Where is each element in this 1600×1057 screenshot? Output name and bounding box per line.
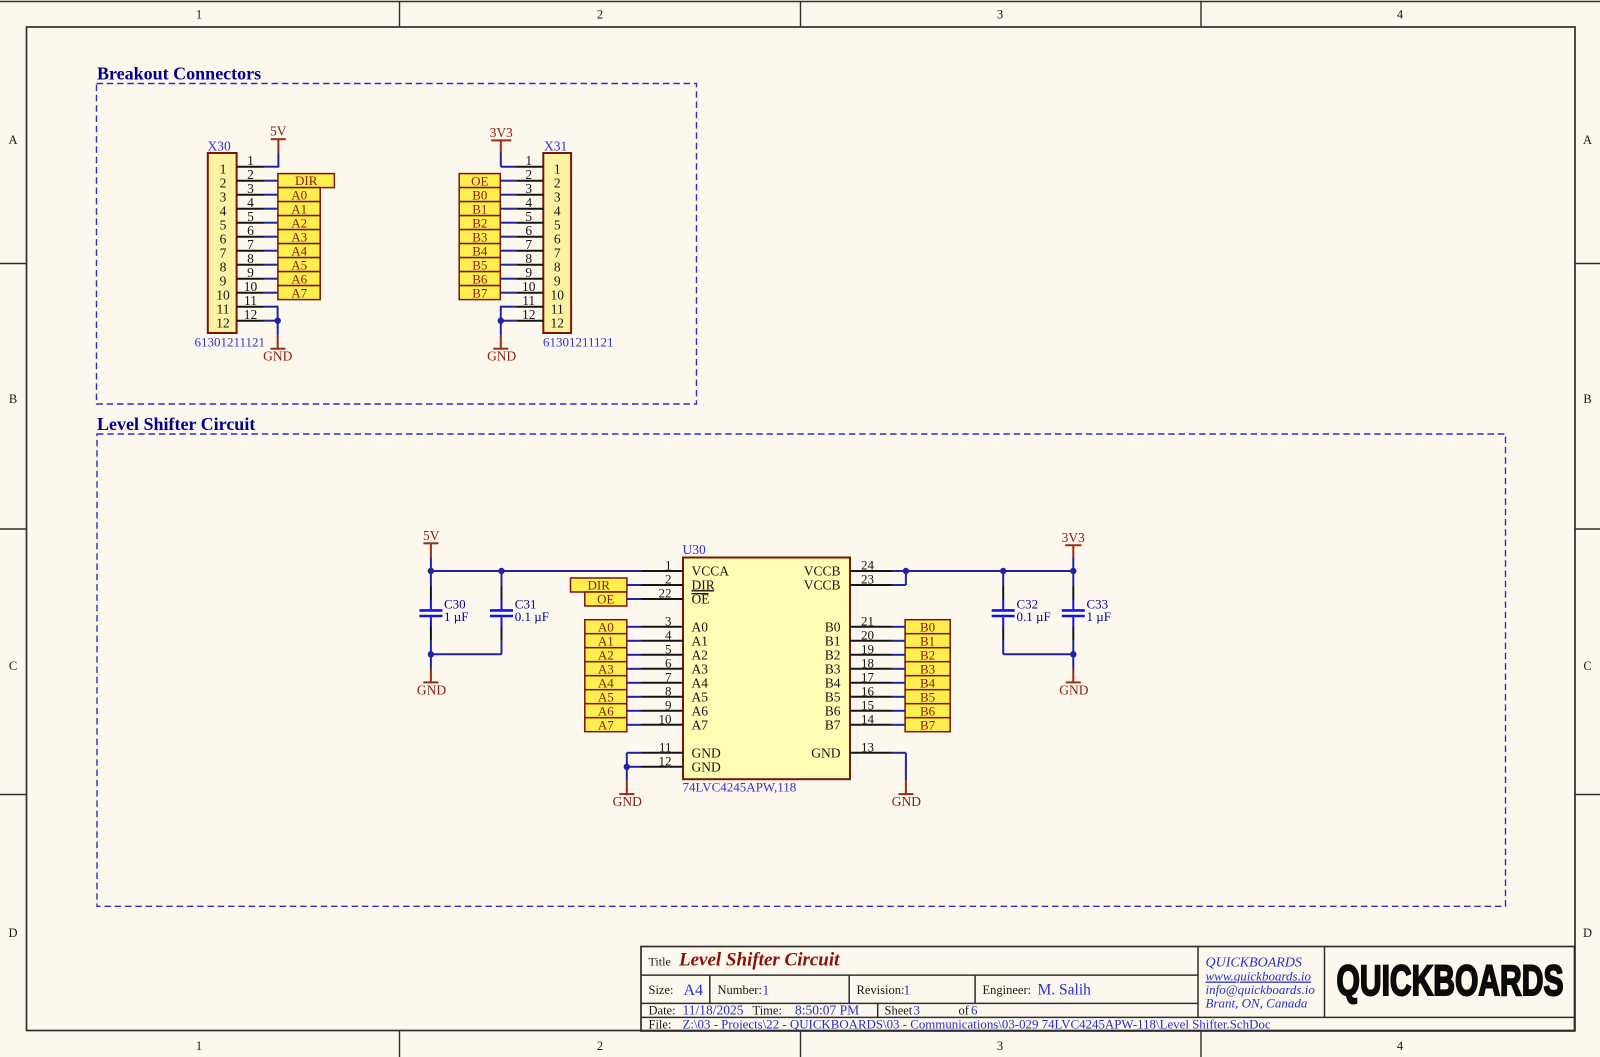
svg-text:A: A [8,133,17,147]
capacitor C32 [992,571,1051,654]
svg-text:6: 6 [665,655,672,670]
svg-text:1: 1 [196,1039,202,1053]
svg-text:6: 6 [554,232,561,247]
X31 pin 9 stub [516,278,543,280]
svg-text:Revision:: Revision: [857,983,905,997]
svg-text:A7: A7 [291,285,307,300]
U30 pin 3 (A0) stub [642,626,684,628]
U30 pin 10 (A7) stub [642,724,684,726]
net label B6 (U30) [905,703,950,718]
svg-text:X30: X30 [208,139,231,154]
junction VCCB rail at C33 [1070,568,1076,574]
svg-text:22: 22 [659,586,672,601]
wire B5 to U30 [892,696,906,698]
svg-text:GND: GND [692,746,721,761]
net label A3 (X30) [278,229,320,244]
X31 pin 6 stub [516,236,543,238]
wire B4 to U30 [892,682,906,684]
X30 pin 8 stub [237,264,264,266]
U30 pin 15 (B6) stub [850,710,892,712]
svg-text:X31: X31 [544,139,567,154]
svg-text:3: 3 [220,190,227,205]
wire X31 pin 4 to B1 [501,208,517,210]
wire X30 pin 8 to A5 [264,264,279,266]
U30 pin 14 (B7) stub [850,724,892,726]
svg-text:B3: B3 [825,662,841,677]
X31 pin 12 stub [516,320,543,322]
junction X30 GND node [275,318,281,324]
svg-text:A0: A0 [291,187,307,202]
U30 pin 17 (B4) stub [850,682,892,684]
X30 pin 2 stub [237,180,264,182]
svg-text:2: 2 [665,572,672,587]
svg-text:Size:: Size: [649,983,674,997]
wire B0 to U30 [892,626,906,628]
capacitor C33 [1062,571,1111,654]
svg-text:M. Salih: M. Salih [1038,982,1092,999]
X30 pin 4 stub [237,208,264,210]
svg-text:8: 8 [554,260,561,275]
X31 pin 5 stub [516,222,543,224]
svg-text:B1: B1 [825,634,841,649]
X31 pin 2 stub [516,180,543,182]
svg-text:3: 3 [997,8,1003,22]
wire X31 pin11 down [501,306,517,321]
svg-text:A4: A4 [692,676,709,691]
svg-text:4: 4 [554,204,561,219]
net label B3 (X31) [459,229,500,244]
svg-text:Sheet: Sheet [885,1004,913,1018]
svg-text:A5: A5 [692,690,709,705]
X31 pin 4 stub [516,208,543,210]
U30 pin 4 (A1) stub [642,640,684,642]
svg-text:3V3: 3V3 [490,125,513,140]
svg-text:Level Shifter Circuit: Level Shifter Circuit [678,950,840,971]
svg-text:61301211121: 61301211121 [543,334,614,349]
svg-text:B5: B5 [825,690,841,705]
U30 pin 20 (B1) stub [850,640,892,642]
net label A2 (X30) [278,215,320,230]
U30 pin 9 (A6) stub [642,710,684,712]
svg-text:B5: B5 [920,689,935,704]
svg-text:0.1 µF: 0.1 µF [515,609,549,624]
ground symbol GND (X30) [263,321,292,364]
wire X31 pin 5 to B2 [501,222,517,224]
svg-text:DIR: DIR [295,173,318,188]
svg-text:1: 1 [196,8,202,22]
svg-text:15: 15 [861,697,874,712]
net label OE (X31) [459,173,500,188]
svg-text:12: 12 [551,316,565,331]
net label A1 (U30) [585,633,627,648]
IC U30 74LVC4245APW [642,542,892,795]
svg-text:GND: GND [892,794,921,809]
X30 pin 3 stub [237,194,264,196]
svg-text:A1: A1 [291,201,307,216]
X31 pin 8 stub [516,264,543,266]
wire X30 pin1 to 5V [264,153,279,168]
U30 DIR pin underline [692,590,715,592]
svg-text:B0: B0 [472,187,487,202]
svg-text:Date:: Date: [649,1004,676,1018]
svg-text:1: 1 [220,162,227,177]
wire X31 pin1 to 3V3 [501,153,517,167]
svg-text:74LVC4245APW,118: 74LVC4245APW,118 [683,780,797,795]
ground symbol GND (U30 pin13) [892,780,921,809]
X30 pin 7 stub [237,250,264,252]
net label A6 (X30) [278,271,320,286]
net label A7 (U30) [585,717,627,732]
svg-text:10: 10 [216,288,230,303]
net label A6 (U30) [585,703,627,718]
wire A6 to U30 [627,710,642,712]
net label B1 (X31) [459,201,500,216]
wire X31 pin12 [501,320,517,322]
net label A0 (X30) [278,187,320,202]
X31 pin 11 stub [516,306,543,308]
svg-text:61301211121: 61301211121 [195,334,266,349]
X30 pin 1 stub [237,166,264,168]
svg-text:A2: A2 [291,215,307,230]
wire A2 to U30 [627,654,642,656]
wire X30 pin 7 to A4 [264,250,279,252]
svg-text:U30: U30 [683,542,706,557]
wire X31 pin 9 to B6 [501,278,517,280]
svg-text:B: B [1583,392,1591,406]
net label A1 (X30) [278,201,320,216]
capacitor C30 [419,571,468,654]
junction 5V rail at C30 [428,568,434,574]
net label A4 (U30) [585,675,627,690]
svg-text:B7: B7 [920,717,936,732]
svg-text:B6: B6 [472,271,488,286]
U30 pin 19 (B2) stub [850,654,892,656]
net label B5 (X31) [459,257,500,272]
svg-text:OE: OE [597,592,614,607]
junction VCCB rail at pin23 [903,568,909,574]
X30 pin 12 stub [237,320,264,322]
svg-text:3V3: 3V3 [1062,530,1085,545]
svg-text:A4: A4 [291,243,307,258]
svg-text:9: 9 [554,274,561,289]
svg-text:Time:: Time: [753,1004,782,1018]
svg-text:13: 13 [861,739,874,754]
wire B3 to U30 [892,668,906,670]
wire 5V rail to U30 VCCA [431,570,642,572]
svg-text:B4: B4 [825,676,841,691]
net label B4 (X31) [459,243,500,258]
svg-text:24: 24 [861,558,875,573]
junction VCCB rail at C32 [1000,568,1006,574]
X30 pin 6 stub [237,236,264,238]
svg-text:A2: A2 [692,648,709,663]
ground symbol GND (U30 pins 11,12) [613,767,642,809]
svg-text:3: 3 [665,613,672,628]
svg-text:VCCB: VCCB [804,564,841,579]
U30 pin 1 (VCCA) stub [642,570,684,572]
svg-text:A6: A6 [692,704,709,719]
wire A4 to U30 [627,682,642,684]
svg-text:4: 4 [665,627,672,642]
company info cell [1206,956,1316,1011]
connector X31 body [543,153,571,333]
svg-text:Breakout Connectors: Breakout Connectors [97,64,261,84]
U30 pin 18 (B3) stub [850,668,892,670]
svg-text:B2: B2 [472,215,487,230]
svg-text:1: 1 [763,983,770,998]
wire X30 pin 4 to A1 [264,208,279,210]
svg-text:9: 9 [665,697,672,712]
svg-text:1 µF: 1 µF [1087,609,1111,624]
svg-text:GND: GND [263,348,292,363]
svg-text:7: 7 [554,246,561,261]
junction U30 GND node (pins 11,12) [624,764,630,770]
X30 pin 5 stub [237,222,264,224]
dashed section box Breakout Connectors [97,84,697,405]
svg-text:B3: B3 [472,229,487,244]
svg-text:16: 16 [861,683,875,698]
svg-text:A2: A2 [598,647,614,662]
svg-text:B3: B3 [920,661,935,676]
capacitor C31 [490,571,549,654]
svg-text:B6: B6 [920,703,936,718]
net label A0 (U30) [585,619,627,634]
net label A5 (U30) [585,689,627,704]
svg-text:Title: Title [649,955,671,969]
svg-text:C: C [1583,659,1591,673]
svg-text:5: 5 [665,641,672,656]
X31 pin 10 stub [516,292,543,294]
svg-text:Level Shifter Circuit: Level Shifter Circuit [97,414,255,434]
U30 pin 6 (A3) stub [642,668,684,670]
net label B1 (U30) [905,633,950,648]
power symbol 5V (U30 rail) [423,528,440,571]
svg-text:3: 3 [914,1003,921,1018]
X31 pin 3 stub [516,194,543,196]
svg-text:11/18/2025: 11/18/2025 [683,1003,744,1018]
net label B6 (X31) [459,271,500,286]
net label A3 (U30) [585,661,627,676]
svg-text:B4: B4 [472,243,488,258]
ground symbol GND (C30/C31) [417,654,446,697]
svg-text:11: 11 [217,302,230,317]
net label B3 (U30) [905,661,950,676]
svg-text:10: 10 [659,711,672,726]
svg-text:6: 6 [971,1003,978,1018]
svg-text:A1: A1 [598,633,614,648]
svg-text:VCCB: VCCB [804,578,841,593]
wire U30 VCCB rail [892,570,1074,572]
wire B7 to U30 [892,724,906,726]
wire X30 pin 9 to A6 [264,278,279,280]
svg-text:B5: B5 [472,257,487,272]
wire OE to U30 pin22 [627,598,642,600]
svg-text:Brant, ON, Canada: Brant, ON, Canada [1206,996,1308,1011]
wire X30 pin 3 to A0 [264,194,279,196]
svg-text:0.1 µF: 0.1 µF [1017,609,1051,624]
svg-text:5: 5 [220,218,227,233]
U30 pin 23 (VCCB) stub [850,584,892,586]
svg-text:A4: A4 [598,675,614,690]
svg-text:QUICKBOARDS: QUICKBOARDS [1337,957,1564,1005]
svg-text:1: 1 [665,558,672,573]
X31 pin 7 stub [516,250,543,252]
wire U30 pin11 down [627,753,642,767]
U30 pin 2 (DIR) stub [642,584,684,586]
wire X31 pin 6 to B3 [501,236,517,238]
svg-text:5V: 5V [270,124,287,139]
wire X30 pin 6 to A3 [264,236,279,238]
X30 pin 11 stub [237,306,264,308]
svg-text:A0: A0 [692,620,709,635]
dashed section box Level Shifter Circuit [97,434,1506,906]
svg-text:A0: A0 [598,619,614,634]
title block frame [641,947,1575,1032]
U30 body [683,558,850,780]
svg-text:GND: GND [487,348,516,363]
U30 OE pin overline [692,593,709,595]
wire X31 pin 7 to B4 [501,250,517,252]
svg-text:8: 8 [665,683,672,698]
wire X31 pin 10 to B7 [501,292,517,294]
wire U30 pin23 up [892,571,906,585]
junction X31 GND node [498,318,504,324]
junction C30 bottom node [428,651,434,657]
net label B0 (U30) [905,619,950,634]
svg-text:A6: A6 [291,271,307,286]
svg-text:GND: GND [613,794,642,809]
net label B0 (X31) [459,187,500,202]
net label A5 (X30) [278,257,320,272]
svg-text:4: 4 [1397,8,1404,22]
svg-text:5: 5 [554,218,561,233]
svg-text:B0: B0 [920,619,935,634]
svg-text:B2: B2 [825,648,841,663]
svg-text:OE: OE [471,173,488,188]
svg-text:7: 7 [665,669,672,684]
svg-text:of: of [959,1004,970,1018]
svg-text:5V: 5V [423,528,440,543]
net label A4 (X30) [278,243,320,258]
net label B7 (X31) [459,285,500,300]
svg-text:Z:\03 - Projects\22 - QUICKBOA: Z:\03 - Projects\22 - QUICKBOARDS\03 - C… [683,1018,1271,1032]
svg-text:4: 4 [220,204,227,219]
svg-text:1: 1 [904,983,911,998]
svg-text:8:50:07 PM: 8:50:07 PM [795,1003,859,1018]
U30 pin 22 (OE) stub [642,598,684,600]
power symbol 3V3 (X31) [490,125,513,153]
svg-text:9: 9 [220,274,227,289]
wire A3 to U30 [627,668,642,670]
net label B4 (U30) [905,675,950,690]
ground symbol GND (C32/C33) [1059,654,1088,697]
svg-text:VCCA: VCCA [692,564,730,579]
svg-text:2: 2 [220,176,227,191]
svg-text:4: 4 [1397,1039,1404,1053]
net label B5 (U30) [905,689,950,704]
net label OE (U30) [585,592,627,607]
wire B6 to U30 [892,710,906,712]
wire X30 pin 10 to A7 [264,292,279,294]
svg-text:12: 12 [659,753,672,768]
svg-text:21: 21 [861,613,874,628]
svg-text:D: D [8,926,17,940]
svg-text:A5: A5 [291,257,307,272]
wire X30 pin12 [264,320,278,322]
svg-text:10: 10 [551,288,565,303]
svg-text:2: 2 [554,176,561,191]
svg-text:18: 18 [861,655,874,670]
net label A2 (U30) [585,647,627,662]
wire A1 to U30 [627,640,642,642]
svg-text:7: 7 [220,246,227,261]
svg-text:A3: A3 [598,661,614,676]
wire C30-C31 bottom rail [431,653,502,655]
wire X31 pin 2 to OE [501,180,517,182]
junction 5V rail at C31 [498,568,504,574]
wire X30 pin11 down [264,306,278,321]
X30 pin 9 stub [237,278,264,280]
svg-text:1: 1 [554,162,561,177]
svg-text:A1: A1 [692,634,709,649]
svg-text:20: 20 [861,627,874,642]
U30 pin 5 (A2) stub [642,654,684,656]
svg-text:19: 19 [861,641,874,656]
wire X31 pin 8 to B5 [501,264,517,266]
svg-text:A7: A7 [598,717,614,732]
connector X30 body [208,153,237,333]
title block texts [649,950,1271,1032]
svg-text:GND: GND [417,682,446,697]
svg-text:2: 2 [597,1039,603,1053]
wire DIR to U30 pin2 [627,584,642,586]
svg-text:11: 11 [659,739,672,754]
svg-text:A4: A4 [684,982,704,999]
net label B2 (X31) [459,215,500,230]
U30 pin 24 (VCCB) stub [850,570,892,572]
U30 pin 16 (B5) stub [850,696,892,698]
svg-text:1 µF: 1 µF [444,609,468,624]
svg-text:11: 11 [551,302,564,317]
svg-text:D: D [1583,926,1592,940]
wire C32-C33 bottom rail [1003,653,1073,655]
wire X30 pin2 to DIR [264,180,279,182]
net label DIR (U30) [571,578,627,593]
svg-text:2: 2 [597,8,603,22]
connector X31 [516,139,613,350]
svg-text:B1: B1 [920,633,935,648]
X31 pin 1 stub [516,166,543,168]
svg-text:17: 17 [861,669,875,684]
svg-text:Engineer:: Engineer: [983,983,1032,997]
svg-text:B7: B7 [472,285,488,300]
ground symbol GND (X31) [487,321,516,364]
svg-text:A6: A6 [598,703,614,718]
svg-text:B: B [9,392,17,406]
svg-text:A3: A3 [692,662,709,677]
svg-text:12: 12 [216,316,230,331]
wire A5 to U30 [627,696,642,698]
svg-text:23: 23 [861,572,874,587]
svg-text:A: A [1583,133,1592,147]
svg-text:6: 6 [220,232,227,247]
svg-text:GND: GND [811,746,840,761]
svg-text:Number:: Number: [718,983,762,997]
wire A0 to U30 [627,626,642,628]
junction C33 bottom node [1070,651,1076,657]
power symbol 3V3 (U30 rail) [1062,530,1085,571]
wire B2 to U30 [892,654,906,656]
